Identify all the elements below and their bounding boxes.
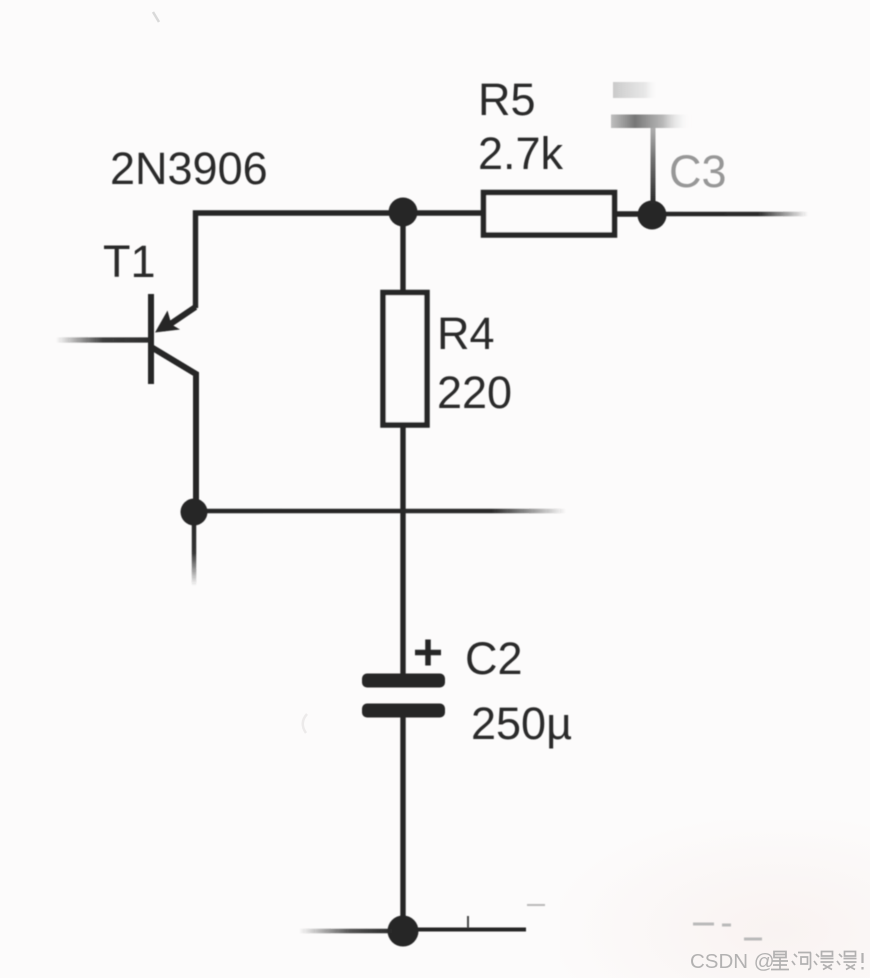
faint residue dashes	[527, 905, 762, 939]
svg-text:R5: R5	[478, 74, 536, 125]
label 2N3906	[110, 143, 268, 194]
value 220	[437, 367, 512, 418]
capacitor C3 upper plate (faded)	[613, 82, 659, 98]
label R5	[478, 74, 536, 125]
label C2	[465, 633, 523, 684]
wire: base lead fading to the left	[56, 337, 150, 342]
wire: mid horizontal rail fading right	[194, 509, 566, 514]
faint residue arc	[303, 714, 307, 733]
svg-text:C3: C3	[669, 146, 727, 197]
resistor R4	[383, 293, 427, 426]
label R4	[437, 308, 495, 359]
transistor Q1 emitter lead with arrow	[155, 307, 196, 333]
wire: junction down to R4 top	[400, 212, 405, 293]
wire: R5 right lead to junction	[615, 211, 650, 216]
node A: junction dot at top of R4	[389, 198, 418, 227]
wire: top horizontal from transistor emitter corner to R5	[196, 213, 484, 308]
node B: junction dot at collector / mid rail	[181, 499, 208, 526]
node D: bottom junction dot	[388, 916, 419, 947]
polarity plus sign	[415, 640, 441, 666]
watermark CJK glyph 星	[771, 952, 789, 970]
watermark CSDN	[690, 950, 775, 973]
wire: R4 bottom down to C2 top plate (crosses mid horizontal wire)	[400, 425, 405, 674]
label C3	[669, 146, 727, 197]
wire: C2 bottom plate down to ground node	[400, 717, 405, 925]
capacitor C2 bottom plate	[362, 704, 445, 718]
svg-text:250µ: 250µ	[471, 698, 572, 749]
watermark exclamation mark	[861, 953, 863, 970]
watermark CJK glyph 漫	[814, 952, 834, 970]
transistor Q1 collector lead	[152, 348, 196, 506]
value 250u	[471, 698, 572, 749]
wire: rail going right from junction, fading	[652, 212, 808, 217]
wire: bottom rail fading to the left	[299, 929, 392, 934]
capacitor C2 top plate	[362, 674, 445, 688]
svg-text:C2: C2	[465, 633, 523, 684]
value 2.7k	[478, 128, 564, 179]
capacitor C3 lower plate (faded)	[611, 115, 691, 129]
wire: bottom rail to the right	[416, 928, 526, 932]
watermark CJK glyph 漫 (second)	[837, 952, 857, 970]
capacitor C3 (faded) lead	[651, 128, 656, 205]
svg-text:CSDN @: CSDN @	[690, 950, 775, 973]
resistor R5	[484, 193, 615, 236]
svg-text:2N3906: 2N3906	[110, 143, 268, 194]
svg-text:220: 220	[437, 367, 512, 418]
label T1	[103, 236, 156, 287]
watermark CJK glyph 河	[792, 953, 811, 970]
svg-text:2.7k: 2.7k	[478, 128, 564, 179]
wire: small tick above bottom rail	[467, 916, 469, 928]
transistor Q1 base bar	[148, 294, 154, 384]
wire: stub below junction fading down	[192, 512, 197, 586]
svg-text:T1: T1	[103, 236, 156, 287]
node C: junction dot right of R5	[638, 201, 667, 230]
svg-text:R4: R4	[437, 308, 495, 359]
